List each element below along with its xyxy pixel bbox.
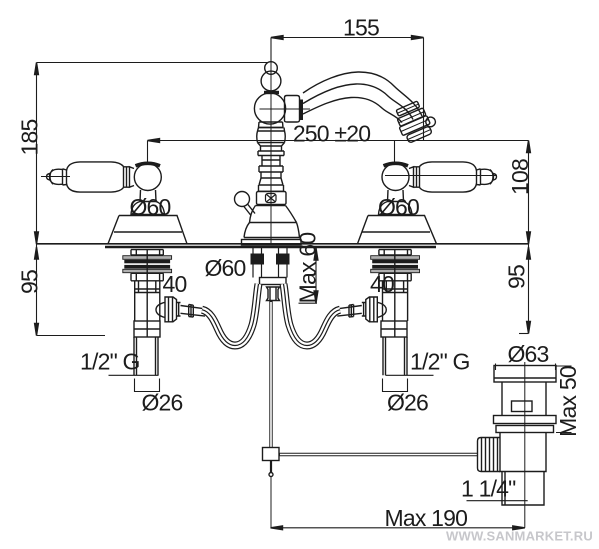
stud nut left (251, 254, 265, 265)
dimension 250 line (148, 140, 529, 142)
spout middle line (303, 84, 413, 120)
drain neck (502, 382, 546, 416)
svg-text:Ø26: Ø26 (387, 390, 428, 416)
right handle barrel (420, 162, 477, 192)
arrows (271, 36, 283, 40)
drain tailpipe (502, 472, 544, 506)
right hose (284, 284, 341, 346)
left lower pipe (134, 337, 158, 375)
stud nut right (276, 254, 290, 265)
rod pin (270, 461, 272, 474)
left hose (202, 284, 259, 346)
deck thick line (105, 246, 436, 249)
svg-text:40: 40 (163, 271, 187, 297)
svg-text:Ø60: Ø60 (378, 194, 419, 220)
right handle extension (394, 141, 396, 164)
bell top (250, 206, 297, 223)
svg-text:1 1/4": 1 1/4" (461, 476, 516, 502)
pop-up knob stem (244, 204, 256, 216)
pop-up rod vertical (269, 301, 272, 448)
left escutcheon (108, 216, 187, 244)
drain body (500, 433, 546, 472)
drain window (512, 401, 533, 412)
svg-text:Ø63: Ø63 (507, 341, 548, 367)
svg-text:Ø60: Ø60 (204, 255, 245, 281)
collar screw symbol (266, 194, 277, 203)
deck top line (37, 243, 529, 245)
faucet top ball small (265, 62, 278, 75)
left handle ball cap (136, 163, 161, 166)
left 95 vertical (36, 244, 38, 336)
svg-text:95: 95 (504, 265, 530, 289)
left 1/2 underline (109, 374, 159, 376)
center studs (253, 247, 287, 278)
left elbow hex (156, 297, 177, 322)
left collar (134, 321, 160, 337)
right handle centerline (385, 175, 497, 177)
hex nipple (267, 287, 280, 301)
spout arm collar (285, 96, 300, 123)
left handle barrel (67, 162, 124, 192)
spout top line (303, 72, 422, 116)
left 95 foot (37, 335, 106, 337)
svg-text:1/2" G: 1/2" G (410, 349, 470, 375)
svg-text:Ø26: Ø26 (141, 390, 182, 416)
svg-text:185: 185 (17, 120, 43, 156)
right 95 foot (519, 333, 529, 335)
right handle ball (382, 164, 409, 191)
left tail pipe upper (135, 249, 160, 337)
dimension 185 top line (37, 62, 269, 64)
column neck sides (258, 128, 285, 192)
right tail body (383, 281, 408, 293)
extension to Max190 (270, 476, 272, 528)
right handle dome (379, 202, 413, 215)
dimension 155 line (271, 37, 424, 39)
drain flange (494, 366, 556, 383)
Max190 line (271, 527, 525, 529)
left handle centerline (41, 176, 70, 178)
bell plinth (242, 240, 302, 246)
dark joint band (264, 91, 279, 94)
right flange stack (379, 250, 411, 255)
right 1/2 underline (386, 374, 434, 376)
left handle stem (140, 190, 156, 202)
svg-text:250 ±20: 250 ±20 (293, 121, 370, 147)
left 26 bracket (135, 379, 160, 392)
right tail pipe upper (383, 249, 408, 337)
spout dark collar band (300, 100, 304, 121)
right handle rings (409, 166, 420, 187)
right 26 bracket (383, 379, 408, 392)
column neck rings (257, 128, 286, 192)
right collar (381, 321, 407, 337)
drain washers (494, 416, 557, 424)
svg-text:Ø60: Ø60 (129, 194, 170, 220)
head centerline (260, 108, 311, 110)
pop-up knob (235, 192, 250, 207)
right elbow adapter (337, 302, 366, 317)
dimension 185 vertical line (36, 63, 38, 245)
left handle ball (134, 164, 161, 191)
svg-text:40: 40 (370, 271, 394, 297)
left handle extension (147, 141, 149, 163)
knurled nut (478, 438, 501, 472)
right escutcheon (358, 216, 437, 244)
right lower pipe (383, 337, 407, 375)
drain ticks (496, 364, 556, 371)
left tail body (135, 281, 160, 293)
right elbow hex (366, 297, 387, 322)
left handle knob (47, 169, 67, 185)
left elbow adapter (177, 302, 206, 317)
dimension 108 / 95 right vertical (528, 141, 530, 334)
faucet ball 2 (261, 71, 281, 91)
left handle rings (124, 166, 135, 187)
drain centerline (524, 362, 526, 528)
spout bottom line (303, 97, 402, 122)
left handle dome (131, 202, 165, 215)
faucet head (254, 93, 285, 124)
dimension 155 extension left (270, 38, 272, 63)
svg-text:108: 108 (507, 159, 533, 195)
svg-text:Max 190: Max 190 (384, 505, 467, 531)
right handle stem (388, 190, 404, 202)
square collar (257, 192, 287, 205)
svg-text:Max 60: Max 60 (295, 233, 321, 304)
column centerline (270, 38, 272, 244)
left flange stack (131, 250, 163, 255)
bell lower (244, 223, 300, 238)
1 1/4 underline (467, 500, 528, 502)
head base ring (259, 122, 284, 128)
mounting bracket (260, 278, 287, 285)
horizontal rod (279, 453, 478, 457)
right handle knob (477, 169, 497, 185)
rod coupler (263, 448, 280, 461)
svg-text:155: 155 (343, 15, 379, 41)
Max60 bracket (299, 247, 318, 304)
svg-text:WWW.SANMARKET.RU: WWW.SANMARKET.RU (446, 529, 593, 544)
right handle ball cap (384, 163, 409, 166)
svg-text:95: 95 (17, 270, 43, 294)
svg-text:1/2" G: 1/2" G (80, 349, 140, 375)
svg-text:Max 50: Max 50 (555, 366, 581, 437)
aerator (392, 98, 439, 145)
dimension 155 extension right (423, 38, 425, 141)
Max50 ticks (556, 366, 572, 433)
